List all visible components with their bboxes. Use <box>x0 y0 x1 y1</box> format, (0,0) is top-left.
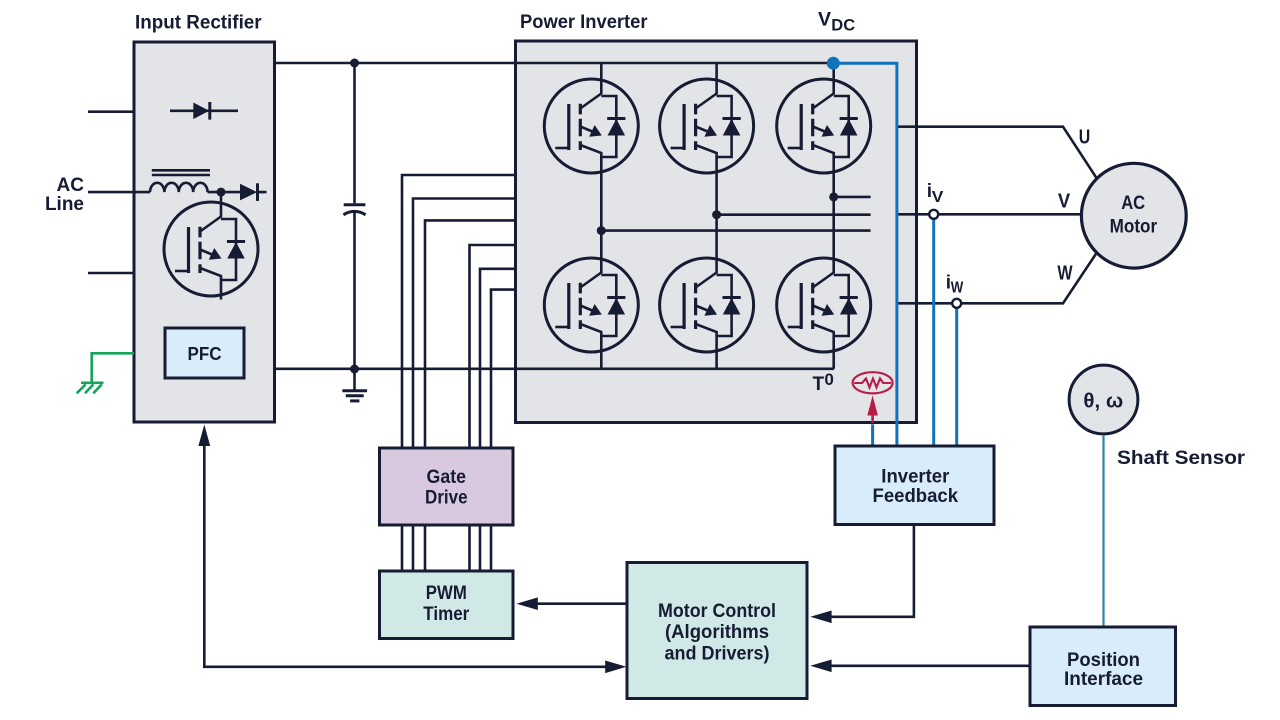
wire Motor Control to PWM Timer <box>536 602 627 605</box>
transistor Q5 (inverter bottom leg 2) <box>660 258 754 352</box>
wire AC input stub top <box>88 110 134 113</box>
svg-text:(Algorithms: (Algorithms <box>665 622 769 643</box>
node dot top bus / capacitor <box>350 59 359 68</box>
wire gate line 4 <box>470 245 516 448</box>
Gate Drive box <box>380 448 514 525</box>
svg-text:Gate: Gate <box>427 467 467 488</box>
wire phase V output <box>897 213 1080 216</box>
svg-text:W: W <box>1057 263 1072 285</box>
wire DC+ top bus <box>275 62 834 65</box>
diode D1 (rectifier top) <box>170 102 238 120</box>
Shaft Sensor circle <box>1069 365 1138 434</box>
wire leg 1 verticals <box>600 63 603 369</box>
arrow into PWM Timer <box>517 597 538 610</box>
transistor Q3 (inverter top leg 3) <box>777 79 871 173</box>
svg-text:iV: iV <box>927 181 944 206</box>
svg-text:Feedback: Feedback <box>873 486 959 507</box>
arrow (red) to thermistor <box>867 396 878 423</box>
wire green earth lead <box>92 353 134 383</box>
wire blue iV sense <box>932 219 935 446</box>
ground (below capacitor) <box>342 369 367 401</box>
wire Inverter Feedback down to Motor Control <box>831 525 914 617</box>
svg-text:AC: AC <box>57 175 85 196</box>
wire gate line 3 <box>425 220 516 448</box>
wire gate line 2 <box>413 199 516 449</box>
svg-text:Shaft Sensor: Shaft Sensor <box>1117 448 1246 469</box>
diode D2 (boost diode) <box>226 183 267 201</box>
node iW sensor circle <box>952 299 961 308</box>
PWM Timer box <box>380 571 514 639</box>
capacitor C1 (DC link) <box>343 63 365 369</box>
svg-text:Power Inverter: Power Inverter <box>520 12 648 33</box>
wire phase stub from leg 3 <box>834 196 871 199</box>
wire blue thermistor sense <box>871 424 874 446</box>
svg-text:V: V <box>1058 191 1071 213</box>
wire dot to PFC IGBT collector <box>220 192 223 203</box>
wire feedback loop to Input Rectifier <box>204 446 621 667</box>
wire gate line 1 (L bend) <box>402 175 516 448</box>
wire gate line 5 <box>480 269 516 448</box>
wire DC- bottom bus <box>275 367 834 370</box>
wire AC input stub bottom <box>88 272 134 275</box>
wire blue iW sense <box>955 308 958 446</box>
transistor Q6 (inverter bottom leg 3) <box>777 258 871 352</box>
node dot leg 3 midpoint <box>829 192 838 201</box>
svg-text:Inverter: Inverter <box>881 467 950 488</box>
svg-text:Line: Line <box>45 194 84 215</box>
Inverter Feedback box <box>835 446 994 525</box>
blue node dot VDC tap <box>827 57 840 70</box>
svg-text:Timer: Timer <box>423 604 470 625</box>
Position Interface box <box>1030 627 1176 706</box>
wire PFC IGBT emitter stub <box>220 296 223 300</box>
inductor L1 with core <box>134 170 221 192</box>
svg-text:U: U <box>1079 126 1091 148</box>
ground chassis (green) <box>77 383 104 394</box>
svg-text:iW: iW <box>946 272 964 296</box>
wire leg 3 verticals <box>832 63 835 369</box>
svg-text:VDC: VDC <box>818 9 855 35</box>
transistor Q7 PFC IGBT <box>164 202 258 296</box>
svg-text:Drive: Drive <box>425 488 468 509</box>
arrow into Input Rectifier (up) <box>198 425 210 447</box>
transistor Q2 (inverter top leg 2) <box>660 79 754 173</box>
wire blue VDC sense <box>833 63 897 446</box>
wire phase stub from leg 1 <box>601 229 870 232</box>
wire phase U output <box>897 127 1097 178</box>
PFC box <box>165 328 244 378</box>
svg-text:PWM: PWM <box>426 583 467 604</box>
wire AC input stub middle <box>88 191 134 194</box>
Input Rectifier block box <box>134 42 275 422</box>
node dot bottom bus / capacitor <box>350 365 359 374</box>
node junction dot (inductor/diode/IGBT) <box>217 188 226 197</box>
svg-text:AC: AC <box>1121 192 1145 214</box>
svg-text:Interface: Interface <box>1064 669 1143 690</box>
thermistor RT1 (red) <box>853 372 893 393</box>
wires gate lines between Gate Drive and PWM Timer <box>402 526 491 572</box>
arrow into Motor Control (from feedback loop) <box>605 661 626 674</box>
node dot leg 2 midpoint <box>712 210 721 219</box>
svg-text:Motor Control: Motor Control <box>658 601 776 622</box>
wire leg 2 verticals <box>715 63 718 369</box>
wire phase stub from leg 2 <box>717 213 871 216</box>
svg-text:and Drivers): and Drivers) <box>665 643 770 664</box>
svg-text:Position: Position <box>1067 650 1140 671</box>
arrow into Motor Control (from Inverter Feedback) <box>810 611 831 624</box>
transistor Q4 (inverter bottom leg 1) <box>544 258 638 352</box>
Power Inverter block box <box>516 41 917 423</box>
svg-text:Input Rectifier: Input Rectifier <box>135 12 262 33</box>
svg-text:θ, ω: θ, ω <box>1083 390 1123 413</box>
svg-text:Motor: Motor <box>1110 216 1158 238</box>
transistor Q1 (inverter top leg 1) <box>544 79 638 173</box>
AC Motor circle <box>1081 163 1186 268</box>
svg-text:PFC: PFC <box>188 344 222 364</box>
wire phase W output <box>897 253 1097 303</box>
Motor Control box <box>627 563 807 699</box>
node iV sensor circle <box>929 210 938 219</box>
wire Position Interface to Motor Control <box>831 664 1031 667</box>
node dot leg 1 midpoint <box>597 226 606 235</box>
wire teal shaft sensor to position interface <box>1102 435 1104 627</box>
wire gate line 6 <box>491 290 516 448</box>
arrow into Motor Control (from Position Interface) <box>810 660 831 673</box>
